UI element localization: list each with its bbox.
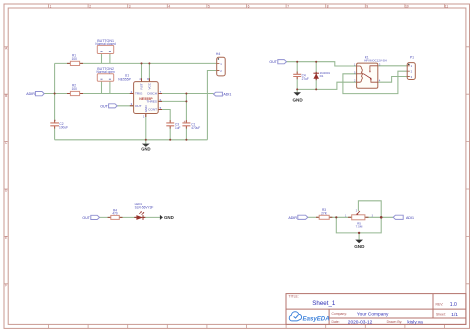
svg-text:1: 1 bbox=[143, 114, 145, 118]
wire GND stem top right bbox=[296, 89, 298, 92]
wire D1 vertical bbox=[315, 62, 317, 90]
wire bottom loop to GND bbox=[336, 217, 381, 233]
svg-text:OUT: OUT bbox=[269, 60, 277, 64]
ground GND bottom right bbox=[354, 240, 365, 249]
wire relay pin3 to P1 pin1 bbox=[378, 65, 407, 67]
C4 pin leads bbox=[296, 72, 298, 80]
wire wiper loop top bbox=[358, 201, 381, 218]
C1 pin leads bbox=[185, 120, 187, 129]
svg-text:1.0: 1.0 bbox=[450, 302, 457, 308]
wire row B right (DISCH to ADI1) bbox=[158, 93, 213, 95]
port OUT bottom left bbox=[82, 215, 99, 220]
wire CONT to C3 bbox=[158, 110, 170, 140]
junction node C1 rail bbox=[185, 139, 187, 141]
wire H4 pin2 to rail bbox=[207, 71, 216, 140]
svg-text:9: 9 bbox=[366, 5, 368, 9]
wire C1 vertical bbox=[185, 94, 187, 140]
svg-text:4: 4 bbox=[168, 5, 170, 9]
svg-text:5: 5 bbox=[208, 5, 210, 9]
wire ADIR to R3 bbox=[308, 216, 319, 218]
svg-text:SLR-56VY3F: SLR-56VY3F bbox=[135, 205, 154, 209]
svg-text:ADIR: ADIR bbox=[26, 92, 35, 96]
C2 pin leads bbox=[54, 120, 56, 129]
svg-text:TITLE:: TITLE: bbox=[289, 295, 299, 299]
svg-text:470uF: 470uF bbox=[191, 126, 200, 130]
svg-text:8: 8 bbox=[147, 77, 149, 81]
svg-text:+: + bbox=[54, 119, 56, 123]
capacitor C2 bbox=[50, 119, 68, 130]
capacitor C4 bbox=[293, 73, 309, 81]
junction node RST on row A bbox=[141, 62, 143, 64]
junction node THRES bbox=[185, 100, 187, 102]
svg-text:4: 4 bbox=[139, 77, 141, 81]
capacitor C3 bbox=[166, 123, 180, 130]
ground GND of 555 bbox=[141, 144, 150, 152]
svg-text:470: 470 bbox=[112, 212, 118, 216]
svg-text:2: 2 bbox=[89, 5, 91, 9]
junction node C3 rail bbox=[169, 139, 171, 141]
svg-text:8: 8 bbox=[327, 5, 329, 9]
wire OUT to R4 to LED1 to GND bbox=[100, 216, 161, 218]
wire row A (R1/BUTTON1 to H4 pin1) bbox=[55, 62, 217, 64]
R4 pin leads bbox=[108, 216, 123, 218]
svg-text:EasyEDA: EasyEDA bbox=[303, 315, 330, 322]
LED LED1 bbox=[134, 202, 153, 220]
op-amp U1 NE555P body bbox=[134, 82, 159, 114]
svg-text:1uF: 1uF bbox=[175, 126, 181, 130]
svg-text:REV:: REV: bbox=[436, 303, 444, 307]
svg-text:2020-03-12: 2020-03-12 bbox=[348, 319, 373, 325]
wire R5 to ADI1 bbox=[365, 216, 393, 218]
svg-text:3: 3 bbox=[129, 5, 131, 9]
port ADIR left bbox=[26, 92, 44, 97]
header H4 bbox=[216, 52, 225, 76]
junction node pot right bbox=[380, 216, 383, 219]
U1 pin leads bbox=[130, 78, 162, 117]
junction node VCC on row A bbox=[148, 62, 150, 64]
border ticks top bbox=[49, 4, 445, 8]
svg-text:CONT: CONT bbox=[148, 108, 157, 112]
junction node pot left tap bbox=[335, 216, 337, 218]
svg-text:VCC: VCC bbox=[147, 82, 151, 89]
svg-text:27uF: 27uF bbox=[302, 77, 309, 81]
junction node C4 top bbox=[296, 61, 298, 63]
border ticks right bbox=[466, 47, 470, 284]
svg-text:Date:: Date: bbox=[332, 320, 340, 324]
wire GND stem bottom right bbox=[358, 233, 360, 240]
wire BUTTON2 pin stubs bbox=[102, 81, 110, 93]
port OUT top right bbox=[269, 60, 286, 65]
port OUT of 555 bbox=[100, 104, 117, 109]
svg-text:GND: GND bbox=[141, 147, 150, 152]
svg-text:100: 100 bbox=[72, 87, 78, 91]
junction node DISCH bbox=[185, 93, 187, 95]
resistor R4 bbox=[111, 208, 120, 219]
header P1 bbox=[407, 56, 415, 80]
title block logo cell divider bbox=[328, 309, 330, 324]
diode D1 bbox=[313, 71, 330, 80]
svg-text:100: 100 bbox=[72, 57, 78, 61]
svg-text:GND: GND bbox=[164, 215, 174, 220]
junction node ADIR/R2/C2 bbox=[54, 93, 56, 95]
border zone letters left bbox=[5, 46, 8, 287]
junction node C4 bottom bbox=[296, 88, 298, 90]
R5 pin leads bbox=[348, 216, 368, 218]
svg-text:GND: GND bbox=[354, 244, 365, 249]
junction node GND rail at U1 bbox=[145, 139, 147, 141]
EasyEDA logo cloud bbox=[289, 312, 301, 321]
switch BUTTON1 bbox=[95, 39, 116, 54]
border ticks bottom bbox=[49, 324, 445, 328]
svg-text:1/1: 1/1 bbox=[451, 312, 458, 318]
svg-text:ADIR: ADIR bbox=[288, 216, 297, 220]
svg-text:1: 1 bbox=[50, 5, 52, 9]
title block frame bbox=[286, 294, 466, 325]
wire relay common to P1 pin2 bbox=[343, 71, 407, 93]
svg-text:Sheet:: Sheet: bbox=[436, 313, 446, 317]
switch BUTTON2 bbox=[96, 67, 114, 81]
svg-text:10: 10 bbox=[405, 5, 409, 9]
svg-text:Your Company: Your Company bbox=[357, 311, 389, 317]
svg-text:H4: H4 bbox=[216, 52, 220, 56]
port ADI1 bottom right bbox=[393, 215, 414, 220]
svg-text:Normal closed: Normal closed bbox=[95, 42, 116, 46]
svg-text:100uF: 100uF bbox=[59, 126, 68, 130]
wire node A vertical (junction to row B) bbox=[54, 63, 56, 93]
svg-text:OUT: OUT bbox=[135, 104, 142, 108]
junction node D1 bottom bbox=[315, 88, 317, 90]
relay K1 bbox=[354, 55, 387, 88]
R3 pin leads bbox=[316, 216, 332, 218]
svg-text:HFV6-DC12V-SH: HFV6-DC12V-SH bbox=[364, 59, 387, 63]
wire OUT to relay pin1 bbox=[287, 62, 357, 66]
port ADI1 of 555 bbox=[214, 92, 232, 96]
capacitor C1 bbox=[182, 120, 200, 130]
resistor R3 bbox=[319, 208, 329, 219]
svg-text:Normal open: Normal open bbox=[96, 70, 114, 74]
wire C4 vertical bbox=[296, 62, 298, 90]
border ticks left bbox=[4, 47, 8, 284]
title block rev column divider bbox=[432, 294, 434, 318]
svg-text:2: 2 bbox=[356, 209, 358, 212]
svg-text:NE555P: NE555P bbox=[118, 78, 131, 82]
svg-text:kisly.va: kisly.va bbox=[407, 319, 423, 325]
resistor R2 bbox=[70, 83, 79, 95]
C3 pin leads bbox=[169, 120, 171, 129]
wire U1 GND pin to ground bbox=[145, 114, 147, 144]
svg-text:P1: P1 bbox=[410, 56, 414, 60]
title block row line 2 bbox=[329, 317, 466, 319]
junction node D1 top bbox=[315, 61, 317, 63]
wire relay pin4 to P1 pin3 bbox=[378, 77, 407, 83]
svg-text:OUT: OUT bbox=[100, 104, 108, 108]
svg-text:7: 7 bbox=[287, 5, 289, 9]
svg-text:TRIG: TRIG bbox=[135, 92, 143, 96]
svg-text:ADI1: ADI1 bbox=[223, 93, 231, 97]
svg-text:Drawn By:: Drawn By: bbox=[387, 320, 403, 324]
port ADIR bottom right bbox=[288, 215, 307, 220]
svg-text:GND: GND bbox=[144, 105, 148, 113]
ground GND bottom left (rotated) bbox=[160, 215, 174, 220]
resistor R1 bbox=[70, 53, 79, 65]
R2 pin leads bbox=[67, 93, 83, 95]
svg-text:E: E bbox=[5, 236, 7, 240]
svg-text:RST: RST bbox=[140, 83, 144, 89]
wire C2 vertical bbox=[54, 94, 56, 140]
svg-text:GND: GND bbox=[292, 97, 303, 102]
svg-text:OUT: OUT bbox=[82, 216, 90, 220]
svg-text:F: F bbox=[5, 283, 7, 287]
wire THRES bbox=[158, 100, 186, 102]
svg-text:D1: D1 bbox=[320, 74, 324, 78]
wire BUTTON1 pin stubs bbox=[102, 54, 110, 64]
wire row B left (ADIR to U1 TRIG) bbox=[44, 93, 133, 95]
svg-text:B: B bbox=[5, 94, 7, 98]
R1 pin leads bbox=[67, 62, 83, 64]
svg-text:Company:: Company: bbox=[332, 312, 348, 316]
potentiometer R5 bbox=[345, 209, 374, 228]
svg-text:DISCH: DISCH bbox=[147, 92, 157, 96]
wire gnd rail to relay pin2 bbox=[297, 82, 356, 89]
title block row line 1 bbox=[286, 308, 466, 310]
wire ground rail bbox=[55, 139, 208, 141]
svg-text:27K: 27K bbox=[321, 211, 328, 215]
svg-text:6: 6 bbox=[248, 5, 250, 9]
svg-text:7.5M: 7.5M bbox=[356, 225, 363, 229]
svg-text:11: 11 bbox=[445, 5, 449, 9]
wire U1 RST and VCC stubs bbox=[142, 63, 150, 81]
border zone numbers top bbox=[50, 5, 449, 9]
wire R3 to R5 bbox=[329, 216, 352, 218]
ground GND top right bbox=[292, 92, 303, 102]
wire OUT port to U1 pin3 bbox=[117, 105, 133, 107]
svg-text:+: + bbox=[184, 120, 186, 124]
junction node GND tap bbox=[358, 232, 360, 234]
svg-text:ADI1: ADI1 bbox=[406, 216, 414, 220]
svg-text:Sheet_1: Sheet_1 bbox=[312, 300, 336, 307]
svg-text:NE555P: NE555P bbox=[139, 97, 153, 101]
